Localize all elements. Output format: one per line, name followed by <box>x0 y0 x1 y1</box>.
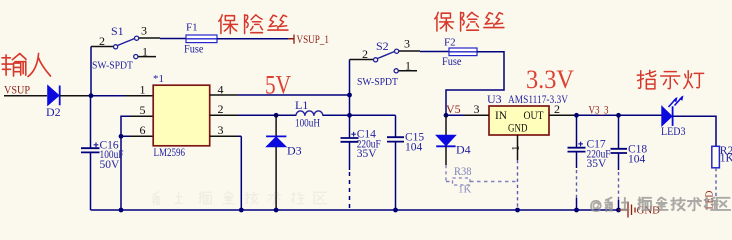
pin 4 LM2596 <box>210 94 238 96</box>
wire V5 to pin3 <box>446 114 464 116</box>
svg-text:Fuse: Fuse <box>442 54 462 68</box>
svg-text:2: 2 <box>362 47 368 61</box>
wire F2 to V5 node <box>446 52 504 116</box>
svg-text:50V: 50V <box>100 159 121 171</box>
wire junction to LM2596 pin1 <box>91 95 125 97</box>
regulator *1 LM2596 <box>153 73 210 159</box>
svg-text:V3_3: V3_3 <box>589 103 609 117</box>
svg-text:1: 1 <box>405 59 411 73</box>
svg-text:F2: F2 <box>444 37 456 49</box>
node C15 rail junction <box>393 208 398 213</box>
svg-text:LED3: LED3 <box>661 124 686 138</box>
net label VSUP_1 <box>288 34 329 46</box>
resistor R27 <box>712 145 732 168</box>
wire V3_3 row <box>574 114 662 116</box>
resistor R38 (faded) <box>446 165 518 196</box>
diode D4 <box>436 115 470 165</box>
annotation 保险丝 (left, red) <box>219 15 288 34</box>
svg-text:6: 6 <box>140 123 146 137</box>
fuse F1 <box>184 22 217 56</box>
svg-text:3.3V: 3.3V <box>526 64 574 94</box>
wire S2 drop <box>349 60 351 96</box>
capacitor C17 <box>568 115 611 210</box>
svg-text:1: 1 <box>140 83 146 97</box>
power port GND <box>619 202 636 218</box>
pin 6 LM2596 <box>130 135 153 137</box>
svg-text:1: 1 <box>510 146 522 152</box>
svg-text:F1: F1 <box>186 22 198 34</box>
svg-text:D2: D2 <box>46 105 61 119</box>
node input junction <box>89 93 94 98</box>
svg-text:L1: L1 <box>295 98 308 112</box>
annotation 保险丝 (right, red) <box>435 12 504 31</box>
svg-text:100uH: 100uH <box>295 116 320 130</box>
capacitor C18 <box>611 115 648 210</box>
svg-text:S2: S2 <box>376 39 389 53</box>
wire ground rail <box>91 209 619 211</box>
node C17 rail junction <box>574 208 579 213</box>
switch S1 <box>91 24 160 72</box>
wire D3 node stub <box>276 114 296 116</box>
svg-text:U3: U3 <box>487 92 502 106</box>
node C17 junction <box>574 113 579 118</box>
pin 1 LM2596 <box>125 95 153 97</box>
svg-text:1K: 1K <box>720 153 732 165</box>
wire pin5 corner <box>121 116 130 136</box>
wire GND pin to rail (faded) <box>517 160 519 208</box>
capacitor C14 <box>341 115 381 208</box>
pin 1 U3 (GND) <box>517 135 519 160</box>
pin 3 U3 <box>464 114 489 116</box>
svg-text:3: 3 <box>404 37 410 51</box>
node pin6 junction <box>119 134 124 139</box>
svg-text:5: 5 <box>140 103 146 117</box>
pin 3 LM2596 <box>210 135 238 137</box>
svg-text:*1: *1 <box>153 73 164 85</box>
wire pin6 to rail <box>121 136 130 210</box>
annotation 指示灯 (red) <box>637 70 703 88</box>
svg-text:1K: 1K <box>458 184 472 196</box>
svg-text:GND: GND <box>508 123 528 135</box>
wire L1 right to C14 node <box>323 114 396 116</box>
wire input vertical (to S1) <box>90 47 92 96</box>
annotation 输入 (red) <box>2 53 51 76</box>
svg-text:SW-SPDT: SW-SPDT <box>92 60 133 72</box>
node C18 rail junction / rail end <box>616 208 621 213</box>
node V5 junction <box>444 113 449 118</box>
svg-text:D3: D3 <box>287 144 302 158</box>
inductor L1 <box>295 98 323 130</box>
wire VSUP to D2 <box>4 95 47 97</box>
diode D3 <box>266 115 302 210</box>
svg-text:VSUP_1: VSUP_1 <box>297 34 330 46</box>
capacitor C16 <box>81 96 124 210</box>
svg-text:V5: V5 <box>446 102 461 116</box>
svg-text:S1: S1 <box>111 24 124 38</box>
node D3 rail junction <box>274 208 279 213</box>
wire LED to R27 <box>673 116 716 146</box>
wire pin2 to L1 <box>238 114 296 116</box>
svg-text:4: 4 <box>218 83 224 97</box>
wire R27 to LED net (faded) <box>715 168 717 196</box>
svg-text:3: 3 <box>218 123 224 137</box>
node pin3 rail junction <box>239 208 244 213</box>
svg-text:2: 2 <box>554 102 560 116</box>
fuse F2 <box>442 37 477 69</box>
diode D2 <box>46 86 91 120</box>
wire S2 to F2 <box>420 51 449 53</box>
capacitor C15 <box>387 115 424 210</box>
wire 5V to output node <box>349 95 351 115</box>
svg-text:VSUP: VSUP <box>4 83 30 97</box>
watermark @稀土掘金技术社区 (bottom right) <box>591 197 730 211</box>
watermark faint (bottom left) <box>153 192 327 205</box>
regulator U3 AMS1117-3.3V <box>487 92 568 135</box>
node D3 junction <box>274 113 279 118</box>
wire F1 to VSUP_1 <box>217 38 294 40</box>
svg-text:1: 1 <box>142 45 148 59</box>
svg-text:2: 2 <box>99 34 105 48</box>
node U3 gnd rail junction <box>515 208 520 213</box>
svg-text:OUT: OUT <box>524 110 544 122</box>
node 5V junction <box>347 93 352 98</box>
node output junction <box>347 113 352 118</box>
svg-text:3: 3 <box>474 102 480 116</box>
svg-text:D4: D4 <box>456 143 471 157</box>
wire S1 to F1 <box>160 38 186 40</box>
node pin6 rail junction <box>119 208 124 213</box>
wire 5V rail top <box>238 94 350 96</box>
svg-text:R38: R38 <box>454 166 472 178</box>
svg-text:104: 104 <box>405 141 423 153</box>
svg-text:104: 104 <box>628 153 646 165</box>
wire pin3 to rail <box>238 136 241 210</box>
svg-text:2: 2 <box>218 102 224 116</box>
LED LED3 <box>661 95 686 138</box>
pin 5 LM2596 <box>130 115 153 117</box>
svg-text:Fuse: Fuse <box>184 42 204 56</box>
pin 2 LM2596 <box>210 114 238 116</box>
svg-text:35V: 35V <box>587 158 608 170</box>
svg-text:LM2596: LM2596 <box>154 145 186 159</box>
svg-text:IN: IN <box>495 110 508 122</box>
pin 2 U3 <box>549 114 574 116</box>
switch S2 <box>350 37 421 89</box>
svg-text:SW-SPDT: SW-SPDT <box>357 76 398 88</box>
svg-text:3: 3 <box>141 24 147 38</box>
svg-text:35V: 35V <box>357 148 378 160</box>
node C18 junction <box>616 113 621 118</box>
